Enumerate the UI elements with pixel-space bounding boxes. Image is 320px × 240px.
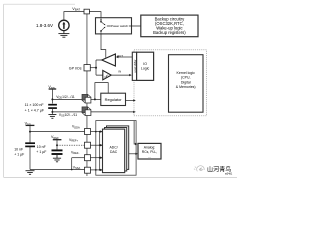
capacitor C-VREF <box>52 150 63 154</box>
svg-text:Analog:: Analog: <box>144 146 156 150</box>
svg-text:+ 1 × 4.7 µF: + 1 × 4.7 µF <box>25 108 45 112</box>
node VDD cap top <box>51 98 53 100</box>
watermark icon <box>194 166 204 172</box>
capacitor C-VDDA <box>25 143 35 146</box>
node VDD regulator <box>94 98 96 100</box>
pin VREF- <box>85 155 91 161</box>
wire regulator output <box>126 99 135 101</box>
schmitt hysteresis mark <box>104 75 108 77</box>
svg-text:& Memories): & Memories) <box>176 85 196 89</box>
kernel logic box <box>169 55 204 112</box>
node VREF <box>56 144 58 146</box>
ground symbol bottom left <box>26 171 35 175</box>
svg-text:ai34d1: ai34d1 <box>225 172 233 175</box>
wire power switch to VDD rail jog <box>101 34 106 58</box>
pin VBAT <box>84 9 89 14</box>
svg-text:OUT: OUT <box>117 54 123 58</box>
node VREF+ inner <box>99 144 101 146</box>
node VDDA inner b <box>99 131 101 133</box>
power switch box <box>96 18 132 34</box>
node VDDA inner a <box>95 131 97 133</box>
battery source B1 <box>59 20 69 30</box>
svg-text:Kernel logic: Kernel logic <box>177 71 196 75</box>
ground under VSS node <box>48 115 56 119</box>
analog RCs PLL box <box>138 143 161 159</box>
pad net wire <box>96 60 103 75</box>
wire VSSA to ADC <box>91 169 102 171</box>
wire VDDA to ADC <box>91 131 102 133</box>
node VSSA inner b <box>99 169 101 171</box>
svg-text:Logic: Logic <box>141 67 150 71</box>
pin VSSA <box>85 167 91 173</box>
pin cube VDD <box>82 94 91 103</box>
pin GP I/Os <box>84 65 90 71</box>
pin VREF+ <box>85 142 91 148</box>
power switch label <box>111 24 129 28</box>
svg-text:IN: IN <box>118 70 121 74</box>
svg-text:Digital: Digital <box>181 80 191 84</box>
wire VBAT pin to power switch <box>89 12 101 18</box>
node VSSA inner a <box>95 169 97 171</box>
pin VDDA <box>85 129 91 135</box>
svg-text:10 nF: 10 nF <box>14 147 23 151</box>
ground rail bottom <box>30 169 85 171</box>
level shifter box <box>132 52 136 80</box>
ADC DAC box front <box>103 129 125 173</box>
svg-text:Regulator: Regulator <box>105 97 123 102</box>
svg-text:(CPU,: (CPU, <box>181 76 191 80</box>
node pad junction <box>95 67 97 69</box>
svg-text:+ 1 µF: + 1 µF <box>14 153 24 157</box>
wire VDD rail to regulator top <box>95 83 108 100</box>
VDD lower bar <box>26 124 35 126</box>
node VSS <box>51 111 53 113</box>
wire VREF- to pin <box>72 157 85 159</box>
output driver buffer <box>102 54 116 66</box>
wire VREF- drop <box>71 158 73 170</box>
wire cap to ground rail <box>29 146 31 169</box>
chip edge line <box>86 9 88 176</box>
svg-text:...: ... <box>148 154 151 158</box>
analog domain box <box>96 121 136 176</box>
node VREF- rail <box>71 169 73 171</box>
wire cap to VSS <box>51 108 53 114</box>
wire VREF- to ADC <box>91 157 102 159</box>
wire VREF+ to ADC <box>91 144 102 146</box>
dashed wire VREF+ <box>57 144 85 146</box>
ground under C-VREF <box>53 154 61 162</box>
ADC DAC stacked box mid <box>105 128 127 172</box>
ground under battery <box>58 31 69 38</box>
svg-text:+ 1 µF: + 1 µF <box>36 150 46 154</box>
power switch internals <box>101 18 105 34</box>
wire OUT from level shifter <box>117 56 132 58</box>
svg-text:VREF-: VREF- <box>71 151 79 156</box>
svg-text:GP I/Os: GP I/Os <box>69 66 82 70</box>
svg-text:10 nF: 10 nF <box>37 145 46 149</box>
IO logic box <box>137 52 154 80</box>
node VREF- inner <box>99 157 101 159</box>
wire VDDA rail <box>30 125 85 142</box>
wire analog domain to analog block <box>134 121 136 144</box>
svg-text:Backup registers): Backup registers) <box>153 30 186 35</box>
analog rail vertical <box>99 132 101 170</box>
wire battery to VBAT pin <box>64 12 84 21</box>
ADC DAC stacked box back <box>107 126 129 169</box>
figure frame <box>4 4 237 177</box>
regulator box <box>101 93 126 105</box>
wire GP pin to pad node <box>90 67 96 69</box>
input schmitt buffer <box>103 70 111 79</box>
wire VREF stem <box>56 140 58 150</box>
wire IN to level shifter <box>111 74 130 76</box>
svg-text:11 × 100 nF: 11 × 100 nF <box>25 103 45 107</box>
svg-text:DAC: DAC <box>110 150 118 154</box>
node VDDA <box>29 131 31 133</box>
dashed core domain box <box>134 50 207 116</box>
svg-text:1.8-3.6V: 1.8-3.6V <box>36 23 53 28</box>
wire VDD pin to regulator node <box>91 98 101 100</box>
VREF bar <box>53 139 62 141</box>
capacitor bank C-VDD <box>48 105 57 108</box>
wire VSS to kernel <box>91 111 135 113</box>
wire VDD to pin <box>52 98 84 100</box>
pin cube VSS <box>82 107 91 116</box>
VDD rail bar <box>49 88 57 90</box>
svg-text:ADC/: ADC/ <box>110 145 118 149</box>
svg-text:RCs, PLL,: RCs, PLL, <box>142 150 158 154</box>
svg-text:Power switch: Power switch <box>111 24 128 28</box>
power switch output wire <box>107 25 141 27</box>
wire VSS to pin <box>52 111 84 113</box>
svg-text:IO: IO <box>143 62 147 66</box>
wire VDD stem <box>51 89 53 104</box>
wire ADC to analog block <box>129 153 137 155</box>
backup circuitry box <box>141 15 198 37</box>
